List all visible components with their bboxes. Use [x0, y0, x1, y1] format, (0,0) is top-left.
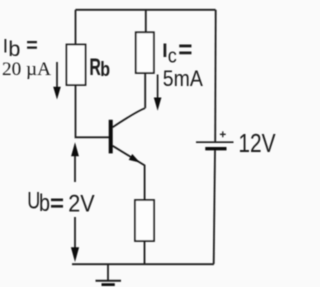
svg-text:=: = [178, 34, 192, 64]
svg-text:5mA: 5mA [163, 66, 203, 91]
svg-text:2V: 2V [68, 190, 94, 217]
svg-text:b: b [100, 59, 110, 81]
svg-text:12V: 12V [238, 130, 275, 158]
svg-text:I: I [3, 36, 8, 57]
svg-text:20 µA: 20 µA [2, 59, 51, 80]
svg-text:c: c [168, 45, 177, 67]
svg-text:b: b [39, 190, 50, 217]
svg-text:=: = [50, 190, 64, 217]
svg-text:I: I [162, 41, 167, 62]
svg-text:b: b [8, 38, 20, 61]
svg-text:=: = [26, 35, 38, 57]
